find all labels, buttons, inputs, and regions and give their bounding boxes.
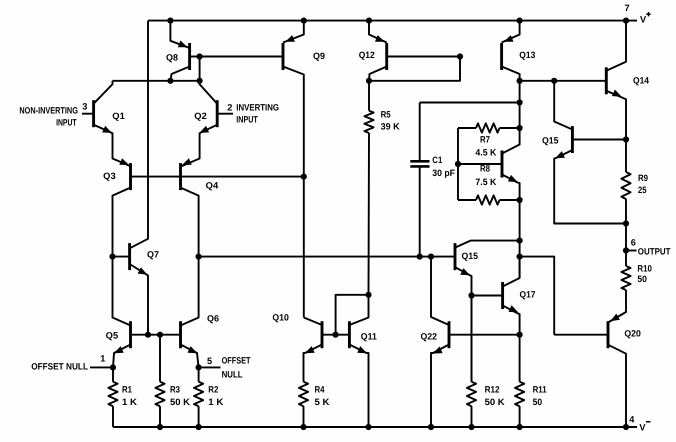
node pin5 offset null (196, 364, 221, 370)
label R12 (485, 384, 500, 394)
svg-text:Q17: Q17 (520, 290, 536, 300)
wire second stage input (199, 256, 455, 258)
label C1 (432, 155, 442, 165)
label 50 K (R3) (170, 397, 190, 407)
node R11 bottom (517, 424, 523, 430)
label 50 (R10) (637, 274, 647, 284)
transistor Q10 (304, 318, 323, 382)
label Q20 (624, 329, 641, 339)
label Q8 (166, 52, 178, 62)
svg-text:Q20: Q20 (624, 329, 641, 339)
svg-text:Q7: Q7 (147, 249, 159, 259)
label R1 (122, 384, 132, 394)
svg-text:50: 50 (533, 397, 543, 407)
transistor Q6 (181, 257, 199, 368)
svg-text:INPUT: INPUT (56, 117, 77, 127)
svg-text:Q8: Q8 (166, 52, 178, 62)
wire Q3-Q4 base (131, 176, 304, 178)
transistor Q9 (200, 21, 304, 177)
svg-text:7.5 K: 7.5 K (475, 177, 496, 187)
node Q22 collector junction (428, 254, 434, 260)
node Q10-Q11 base tie (333, 332, 339, 338)
svg-text:Q6: Q6 (207, 314, 219, 324)
svg-text:V: V (640, 15, 647, 25)
transistor Q11 (349, 295, 368, 427)
label 1 K (R1) (122, 397, 137, 407)
wire input-collector bus (113, 80, 200, 82)
label OFFSET NULL (31, 362, 88, 372)
resistor R1 (108, 367, 117, 427)
transistor Q17 (472, 257, 520, 335)
wire Q8 base drop (199, 57, 201, 81)
svg-text:R8: R8 (480, 164, 490, 174)
wire Q9 collector column (303, 177, 305, 318)
label 7.5 K (475, 177, 496, 187)
label Q4 (206, 180, 219, 190)
svg-text:1 K: 1 K (122, 397, 137, 407)
node Q17 collector junction (517, 254, 523, 260)
resistor R9 (621, 140, 630, 224)
svg-text:Q4: Q4 (206, 180, 219, 190)
wire Q10-Q11 base (322, 334, 349, 336)
label R2 (208, 384, 218, 394)
svg-text:Q14: Q14 (633, 76, 650, 86)
transistor Q22 (431, 257, 520, 427)
node Q4/Q6 collector junction (196, 254, 202, 260)
node Q8 emitter on rail (167, 18, 173, 24)
label INVERTING (236, 103, 279, 113)
svg-text:R3: R3 (170, 384, 180, 394)
resistor R7 (458, 123, 520, 132)
transistor Q8 (170, 21, 199, 81)
node R9 bottom / output join (623, 220, 629, 226)
node Q12 emitter on rail (366, 18, 372, 24)
node Q9 emitter on rail (301, 18, 307, 24)
label 4 (629, 415, 635, 425)
svg-text:C1: C1 (432, 155, 442, 165)
label Q14 (633, 76, 650, 86)
wire V- rail (113, 426, 637, 428)
node Q17 base junction (468, 292, 474, 298)
svg-text:Q11: Q11 (361, 331, 377, 341)
resistor R4 (299, 382, 308, 427)
resistor R3 (155, 335, 164, 427)
label Q13 (519, 50, 535, 60)
node Q8 collector (167, 78, 173, 84)
svg-text:OUTPUT: OUTPUT (638, 246, 671, 256)
label R11 (533, 384, 547, 394)
svg-text:1 K: 1 K (208, 397, 223, 407)
svg-text:6: 6 (631, 237, 636, 247)
node Q3 collector / Q7 base / Q5 collector (109, 254, 115, 260)
label Q15 upper (542, 136, 559, 146)
node Q12-Q13 base junction (457, 53, 463, 59)
transistor Q15 upper (554, 81, 626, 224)
svg-text:2: 2 (227, 103, 232, 113)
resistor R8 (458, 195, 520, 204)
svg-text:4.5 K: 4.5 K (475, 147, 496, 157)
label OUTPUT (638, 246, 671, 256)
label Q22 (421, 332, 438, 342)
resistor R10 (621, 251, 630, 311)
label Q5 (106, 331, 119, 341)
node R7 right junction (517, 125, 523, 131)
svg-text:50: 50 (637, 274, 647, 284)
node VBE multiplier base junction (455, 161, 461, 167)
svg-text:3: 3 (82, 101, 87, 111)
svg-text:R1: R1 (122, 384, 132, 394)
transistor Q15 middle (455, 241, 520, 382)
svg-text:5 K: 5 K (315, 397, 330, 407)
wire Q5-Q6 base (131, 334, 181, 336)
label 30 pF (432, 168, 455, 178)
node Q7 emitter junction (145, 332, 151, 338)
label 5 (207, 356, 212, 366)
transistor Q4 (181, 158, 199, 256)
node R2 bottom (196, 424, 202, 430)
wire C1 top feed (420, 102, 520, 104)
svg-text:R9: R9 (638, 173, 648, 183)
node C1 top junction (517, 99, 523, 105)
wire Q14 base line (520, 80, 607, 82)
svg-text:Q2: Q2 (194, 111, 207, 121)
node 2 inverting input (227, 103, 232, 113)
label Q10 (272, 313, 289, 323)
svg-text:39 K: 39 K (381, 122, 400, 132)
label R10 (637, 263, 652, 273)
node 3 non-inverting input (82, 101, 87, 111)
wire V+ rail (148, 20, 637, 22)
svg-text:R2: R2 (208, 384, 218, 394)
label R4 (315, 384, 326, 394)
label R5 (381, 110, 391, 120)
transistor Q7 (113, 21, 149, 335)
svg-text:5: 5 (207, 356, 212, 366)
resistor R5 (364, 81, 373, 295)
label R9 (638, 173, 648, 183)
svg-text:R5: R5 (381, 110, 391, 120)
node Q22 base junction (517, 332, 523, 338)
transistor Q20 (554, 311, 626, 428)
node pin6 output terminal (623, 247, 637, 253)
label Q2 (194, 111, 207, 121)
node Q11 emitter bottom (365, 424, 371, 430)
transistor Q1 (82, 81, 131, 166)
transistor Q5 (113, 257, 131, 368)
svg-text:R7: R7 (480, 135, 490, 145)
svg-text:50 K: 50 K (485, 397, 505, 407)
svg-text:Q1: Q1 (112, 111, 125, 121)
svg-text:Q3: Q3 (103, 171, 116, 181)
label NULL (5) (222, 370, 243, 380)
label NON-INVERTING (19, 106, 78, 116)
svg-text:1: 1 (100, 354, 105, 364)
svg-text:INPUT: INPUT (236, 115, 258, 125)
node Q12 collector (366, 78, 372, 84)
label Q7 (147, 249, 159, 259)
svg-text:OFFSET: OFFSET (222, 356, 251, 366)
svg-text:30 pF: 30 pF (432, 168, 455, 178)
resistor R2 (194, 367, 203, 427)
label Q17 (520, 290, 536, 300)
wire R7-R8 left riser (457, 128, 459, 200)
transistor Q14 (606, 21, 626, 140)
svg-text:NULL: NULL (222, 370, 243, 380)
transistor Q3 (113, 158, 131, 256)
svg-text:4: 4 (629, 415, 635, 425)
label 1 K (R2) (208, 397, 223, 407)
node Q8 tie lower (197, 78, 203, 84)
node Q8 base-collector tie upper (197, 53, 203, 59)
svg-text:NON-INVERTING: NON-INVERTING (19, 106, 78, 116)
svg-text:Q9: Q9 (313, 51, 325, 61)
label OFFSET (5) (222, 356, 251, 366)
svg-text:INVERTING: INVERTING (236, 103, 279, 113)
svg-text:V: V (639, 423, 646, 433)
svg-text:50 K: 50 K (170, 397, 190, 407)
svg-text:25: 25 (638, 185, 647, 195)
resistor R11 (515, 335, 524, 427)
svg-text:R10: R10 (637, 263, 652, 273)
wire Q12 base-collector tie (369, 57, 460, 81)
node pin1 offset null (90, 364, 116, 370)
transistor Q2 (182, 81, 234, 166)
label R3 (170, 384, 180, 394)
svg-text:Q5: Q5 (106, 331, 119, 341)
node Q3/Q4 base junction (301, 174, 307, 180)
transistor Q13 (502, 21, 520, 81)
svg-text:R4: R4 (315, 384, 326, 394)
node Q22 emitter bottom (428, 424, 434, 430)
label 50 (R11) (533, 397, 543, 407)
node Q13 collector / Q14 base (517, 78, 523, 84)
label R8 (480, 164, 490, 174)
wire output column (625, 224, 627, 251)
svg-text:R11: R11 (533, 384, 547, 394)
label 6 (631, 237, 636, 247)
label 7 (625, 3, 630, 13)
label R7 (480, 135, 490, 145)
node Q11 collector/base/R5 junction (365, 292, 371, 298)
wire base tie riser (336, 295, 369, 335)
label 50 K (R12) (485, 397, 505, 407)
node R12 bottom (468, 424, 474, 430)
label INPUT (inv) (236, 115, 258, 125)
capacitor C1 (410, 103, 429, 257)
svg-text:Q13: Q13 (519, 50, 535, 60)
node pin4 terminal (623, 424, 629, 430)
resistor R12 (467, 296, 476, 428)
node R4 bottom (300, 424, 306, 430)
label 39 K (381, 122, 400, 132)
svg-text:OFFSET NULL: OFFSET NULL (31, 362, 88, 372)
label V- (639, 422, 650, 433)
transistor Q12 (369, 21, 460, 81)
svg-text:7: 7 (625, 3, 630, 13)
label 1 (100, 354, 105, 364)
label Q1 (112, 111, 125, 121)
label 5 K (R4) (315, 397, 330, 407)
node C1 bottom junction (417, 254, 423, 260)
transistor VBE multiplier (458, 81, 520, 278)
label Q6 (207, 314, 219, 324)
node Q16 emitter / Q15 collector junction (517, 238, 523, 244)
label V+ (640, 12, 651, 25)
label 25 (638, 185, 647, 195)
label Q3 (103, 171, 116, 181)
svg-text:Q10: Q10 (272, 313, 289, 323)
svg-text:R12: R12 (485, 384, 500, 394)
label Q11 (361, 331, 377, 341)
node Q13 emitter on rail (517, 18, 523, 24)
node R3 bottom (157, 424, 163, 430)
node pin7 terminal (623, 18, 629, 24)
node Q15 collector junction (551, 78, 557, 84)
svg-text:Q15: Q15 (462, 251, 479, 261)
label 4.5 K (475, 147, 496, 157)
wire Q20 base feed (520, 257, 555, 335)
svg-text:Q15: Q15 (542, 136, 559, 146)
node R8 right junction (517, 197, 523, 203)
svg-text:Q12: Q12 (359, 50, 375, 60)
svg-text:Q22: Q22 (421, 332, 438, 342)
label Q12 (359, 50, 375, 60)
label INPUT (non-inv) (56, 117, 77, 127)
label Q15 middle (462, 251, 479, 261)
label Q9 (313, 51, 325, 61)
node R3 top junction (157, 332, 163, 338)
node Q15 base / Q14 emitter (623, 136, 629, 142)
